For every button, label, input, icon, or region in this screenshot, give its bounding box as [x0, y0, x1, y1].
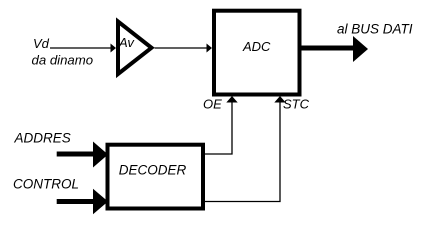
wire Vd input to amplifier: [50, 47, 111, 49]
arrowhead ADDRES into DECODER: [93, 142, 108, 168]
svg-text:ADDRES: ADDRES: [14, 131, 71, 146]
svg-text:Vd: Vd: [33, 36, 50, 51]
svg-text:CONTROL: CONTROL: [13, 177, 79, 192]
wire OE control line: [205, 97, 232, 154]
svg-text:da dinamo: da dinamo: [32, 53, 94, 68]
wire STC control line: [205, 97, 280, 202]
arrowhead CONTROL into DECODER: [93, 189, 108, 215]
bus wire ADC output: [299, 46, 353, 51]
svg-text:Av: Av: [118, 35, 135, 50]
svg-text:OE: OE: [203, 97, 222, 112]
wire amplifier output to ADC: [155, 47, 208, 49]
arrowhead bus al BUS DATI: [353, 36, 368, 62]
bus wire CONTROL: [57, 199, 94, 204]
arrowhead STC into ADC: [274, 96, 285, 103]
arrowhead OE into ADC: [226, 96, 237, 103]
arrowhead into ADC: [207, 44, 213, 53]
DECODER U3 box: [108, 145, 204, 209]
op-amp U1 amplifier triangle: [118, 22, 152, 75]
arrowhead into amplifier: [111, 44, 117, 53]
ADC U2 box: [214, 11, 300, 95]
svg-text:DECODER: DECODER: [119, 163, 187, 178]
svg-text:al BUS DATI: al BUS DATI: [337, 22, 413, 37]
svg-text:STC: STC: [283, 97, 310, 112]
svg-text:ADC: ADC: [242, 39, 271, 54]
bus wire ADDRES: [57, 152, 94, 157]
